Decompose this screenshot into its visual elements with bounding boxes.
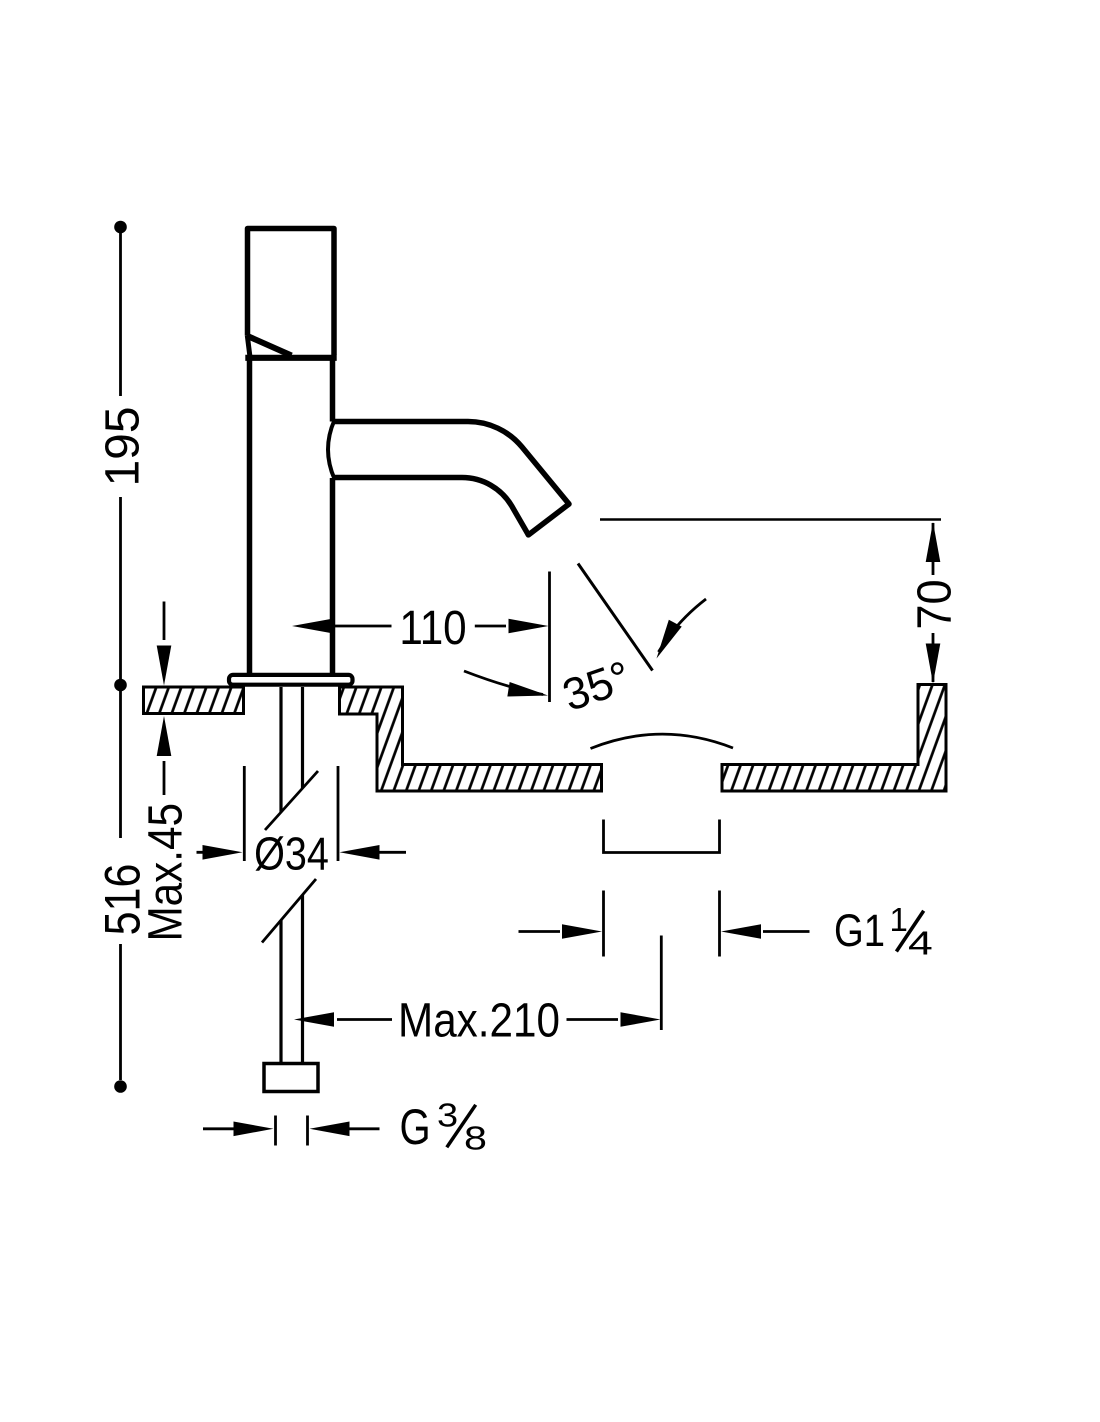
spout root bulge [328,420,335,479]
dimension G 3/8 ticks [276,1116,308,1146]
dot middle (counter level) [114,679,127,692]
dimension Max.210 [337,1018,618,1021]
faucet body right edge upper [330,359,336,422]
dot bottom of 516 [114,1080,127,1093]
svg-text:G: G [400,1099,431,1155]
spout mouth [528,504,569,535]
handle lever left short edge [247,336,250,358]
extension line for Max.210 [660,936,663,1031]
spout level reference line [600,518,941,520]
faucet handle [248,229,335,356]
faucet body left edge [247,359,253,673]
svg-text:Ø34: Ø34 [254,829,329,880]
dimension 195 vertical line with end dots [119,233,122,679]
35 deg left arc arrow [464,671,543,695]
drain tailpiece bracket [604,820,720,853]
basin bottom arc [591,734,734,748]
counter right L-shaped slab hatched [722,685,946,792]
svg-text:70: 70 [907,579,961,629]
supply pipe right line [301,687,304,1064]
dimension O34 arrows [197,851,407,854]
base flange [229,675,353,685]
dimension Max.45 lower arrow [163,761,166,795]
dimension G1 1/4 extension lines [604,891,720,957]
dimension Max.45 upper arrow [163,602,166,641]
svg-text:8: 8 [464,1119,487,1156]
faucet body right edge lower [330,478,336,673]
handle joint thick line [245,355,336,361]
spout bottom edge [332,478,528,535]
dimension 516 vertical line lower part [119,691,122,1080]
extension line under spout tip [548,572,551,703]
handle lever diagonal [248,336,292,356]
water stream 35 degree line [578,564,653,671]
svg-text:Max.210: Max.210 [398,993,560,1047]
dimension 70 [932,523,935,682]
pipe break slash upper [265,771,318,830]
svg-text:Max.45: Max.45 [138,803,192,942]
counter left slab hatched [144,687,244,714]
dimension G1 1/4 arrows [519,930,810,933]
dimension G 3/8 arrows [203,1127,380,1130]
dimension O34 extension lines [244,766,338,861]
svg-text:3: 3 [437,1097,458,1134]
svg-text:G1: G1 [834,905,885,956]
dot top of 195 [114,221,127,234]
svg-text:110: 110 [399,600,466,654]
35 deg right arc arrow [659,599,707,652]
counter middle stepped slab hatched [340,687,602,791]
supply pipe left line [279,687,282,1064]
svg-text:4: 4 [908,926,933,962]
supply connector box [264,1064,318,1092]
dimension 110 [335,625,506,628]
svg-text:1: 1 [890,901,908,938]
pipe break slash lower [262,879,316,943]
spout top edge [332,422,569,505]
svg-text:195: 195 [97,406,150,486]
